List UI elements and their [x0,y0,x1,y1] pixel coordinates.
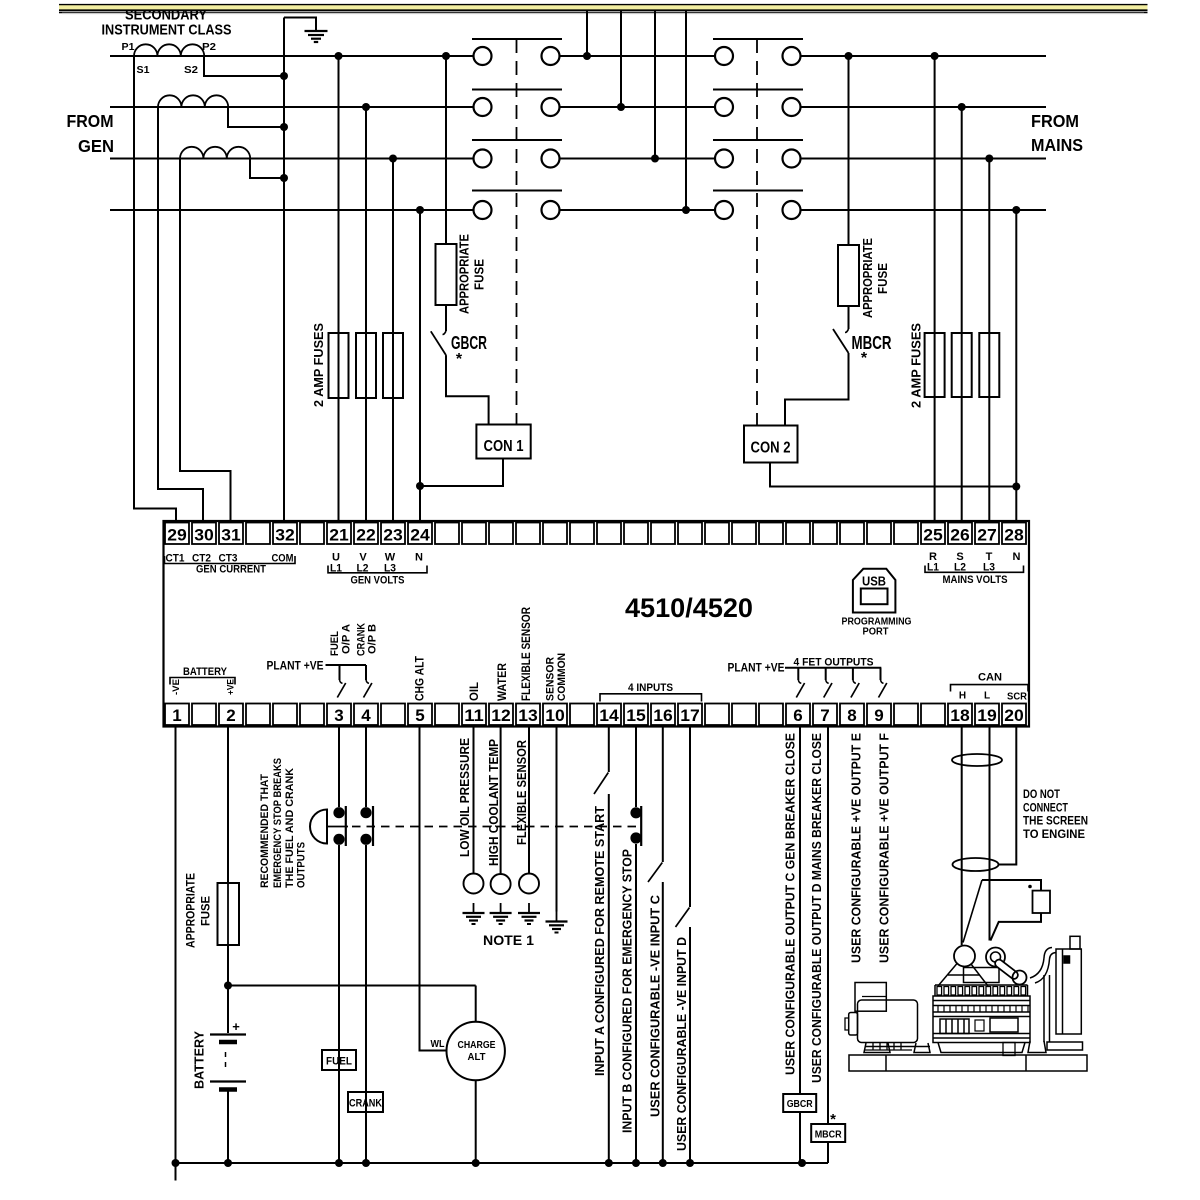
svg-text:13: 13 [518,706,538,725]
svg-text:H: H [959,691,966,702]
wire gen L1 sense to terminal 21 [338,56,340,521]
svg-text:APPROPRIATE: APPROPRIATE [184,873,198,948]
svg-text:PORT: PORT [863,626,890,638]
charge alternator [447,1022,505,1080]
svg-text:FLEXIBLE SENSOR: FLEXIBLE SENSOR [519,607,533,701]
wire terminal 15 input B [635,727,637,808]
wire load feed 1 [586,11,588,56]
wire charge alt excite from battery [475,986,477,1022]
engine generator set [845,936,1087,1071]
svg-text:4: 4 [361,706,371,725]
svg-text:+VE: +VE [225,679,236,695]
wire terminal 13 flexible sensor [528,727,530,874]
svg-text:11: 11 [464,706,484,725]
emergency stop contact fuel [333,807,344,818]
top border band [59,5,1148,10]
svg-text:*: * [830,1111,836,1128]
svg-text:USB: USB [862,574,886,589]
wire load feed 3 [654,11,656,159]
svg-text:CON 2: CON 2 [751,440,791,457]
svg-text:MAINS VOLTS: MAINS VOLTS [943,574,1008,586]
svg-text:25: 25 [923,526,943,545]
switch FUEL output A [339,665,341,680]
wire terminal 16 input C [662,727,664,863]
wire mains L1 sense to terminal 25 [934,56,936,521]
svg-text:CAN: CAN [978,672,1002,684]
svg-text:GEN CURRENT: GEN CURRENT [196,564,266,576]
svg-text:*: * [456,351,463,368]
svg-text:N: N [1013,551,1021,563]
svg-text:5: 5 [415,706,424,725]
terminal strip bottom row [165,704,189,726]
svg-text:USER CONFIGURABLE -VE INPUT D: USER CONFIGURABLE -VE INPUT D [675,937,689,1151]
svg-text:15: 15 [626,706,646,725]
dashed linkage CON2 [756,39,758,426]
ground symbol CT common earth [284,18,316,31]
svg-text:USER CONFIGURABLE +VE OUTPUT E: USER CONFIGURABLE +VE OUTPUT E [850,733,864,963]
wire mains neutral to terminal 28 [1015,210,1017,521]
svg-text:FUEL: FUEL [329,631,341,656]
twisted pair shield lower [953,858,999,871]
svg-text:1: 1 [172,706,181,725]
svg-text:HIGH COOLANT TEMP: HIGH COOLANT TEMP [487,739,501,866]
wire CT1 S2 lead to common [204,56,284,76]
svg-text:7: 7 [820,706,829,725]
wire load feed 4 [685,11,687,210]
svg-text:S2: S2 [184,65,198,76]
switch GBCR auxiliary contact [431,331,446,355]
svg-text:P2: P2 [202,42,216,53]
CAN termination resistor [982,880,1041,891]
svg-text:WATER: WATER [495,663,509,701]
wire terminal 11 oil sensor [473,727,475,874]
relay FUEL [322,1050,356,1070]
wire terminal 6 GBCR relay [799,727,801,1095]
svg-text:29: 29 [167,526,187,545]
wire CON2 coil return to mains neutral [770,463,1016,487]
svg-text:N: N [415,552,423,564]
svg-text:EMERGENCY STOP BREAKS: EMERGENCY STOP BREAKS [272,758,284,888]
svg-text:6: 6 [793,706,802,725]
wire terminal 19 CAN L [989,727,991,941]
svg-text:FLEXIBLE SENSOR: FLEXIBLE SENSOR [515,740,529,845]
wire terminal 14 input A [608,727,610,773]
switch MBCR auxiliary contact [833,329,849,353]
svg-text:FUSE: FUSE [473,259,487,290]
wire CT2 S1 lead to terminal 30 [158,107,203,521]
svg-text:RECOMMENDED THAT: RECOMMENDED THAT [259,774,271,888]
bracket GEN CURRENT [165,556,296,564]
junction CT commons [280,72,288,80]
fuse appropriate GBCR [436,244,457,305]
bracket MAINS VOLTS [925,566,1024,573]
wire terminal 1 to battery negative bus [175,727,177,1164]
svg-text:L: L [984,691,990,702]
svg-text:4 INPUTS: 4 INPUTS [628,682,673,694]
svg-text:ALT: ALT [468,1051,487,1063]
ground flexible sensor [528,903,530,913]
svg-text:21: 21 [329,526,349,545]
svg-text:MBCR: MBCR [852,333,892,353]
fuse 2A gen L2 [356,333,376,398]
wire charge alt to bus [475,1080,477,1163]
wire MBCR to bus end [827,1142,829,1163]
wire gen neutral to terminal 24 [419,210,421,521]
svg-text:27: 27 [977,526,997,545]
svg-text:OIL: OIL [467,682,481,701]
wire terminal 18 CAN H [961,727,963,946]
svg-text:GBCR: GBCR [787,1098,813,1110]
wire CT common to terminal 32 [283,18,285,522]
wire terminal 7 MBCR relay [827,727,829,1125]
wire gen bus L2 [110,106,474,108]
svg-text:TO ENGINE: TO ENGINE [1023,829,1085,841]
svg-text:CRANK: CRANK [349,1098,382,1110]
svg-text:BATTERY: BATTERY [193,1030,207,1089]
switch CRANK output B [365,665,367,680]
fuse 2A gen L3 [383,333,403,398]
svg-text:DO NOT: DO NOT [1023,789,1060,801]
svg-text:23: 23 [383,526,403,545]
wire gen bus L1 [110,55,474,57]
wire CT3 S2 lead to common [250,159,284,179]
wire load feed 2 [620,11,622,107]
switch FET output terminal 6 [797,668,799,680]
wire MBCR to CON2 coil [785,353,849,426]
wire neutral bus [110,209,474,211]
svg-text:FROM: FROM [67,111,114,131]
fuse 2A mains L2 [952,333,972,397]
svg-text:MBCR: MBCR [815,1129,842,1141]
emergency stop pushbutton [310,810,327,844]
oil pressure sender [464,874,484,894]
wire CT2 S2 lead to common [228,107,284,127]
svg-text:17: 17 [680,706,700,725]
circuit breaker CON1 poles [472,38,562,40]
svg-text:APPROPRIATE: APPROPRIATE [458,234,472,314]
svg-text:19: 19 [977,706,997,725]
svg-text:LOW OIL PRESSURE: LOW OIL PRESSURE [458,738,472,857]
svg-text:CON 1: CON 1 [484,438,524,455]
fuse appropriate battery [218,883,240,945]
svg-text:22: 22 [356,526,376,545]
contactor coil CON 1 [476,425,530,459]
svg-text:THE FUEL AND CRANK: THE FUEL AND CRANK [284,768,296,888]
svg-text:*: * [861,350,868,367]
svg-text:30: 30 [194,526,214,545]
svg-text:9: 9 [874,706,883,725]
svg-text:4 FET OUTPUTS: 4 FET OUTPUTS [794,656,874,668]
relay GBCR [783,1094,816,1112]
USB programming port connector [853,569,896,613]
svg-text:12: 12 [491,706,511,725]
svg-text:APPROPRIATE: APPROPRIATE [861,238,875,318]
svg-text:31: 31 [221,526,241,545]
dashed emergency stop linkage [352,826,641,828]
svg-text:USER CONFIGURABLE OUTPUT C GEN: USER CONFIGURABLE OUTPUT C GEN BREAKER C… [784,733,798,1075]
switch remote start input A [594,773,608,795]
ground sensor common [556,912,558,922]
svg-text:8: 8 [847,706,856,725]
svg-text:GBCR: GBCR [451,333,487,353]
svg-text:28: 28 [1004,526,1024,545]
wire terminal 3 fuel output [338,727,340,808]
svg-text:INPUT B CONFIGURED FOR EMERGEN: INPUT B CONFIGURED FOR EMERGENCY STOP [621,849,635,1133]
wire terminal 20 CAN SCR screen [999,727,1017,865]
svg-text:FROM: FROM [1031,111,1079,131]
relay CRANK [348,1092,383,1112]
bracket GEN VOLTS [328,566,427,573]
svg-text:-VE: -VE [171,679,182,695]
svg-text:CHARGE: CHARGE [458,1039,496,1051]
wire GBCR to CON1 coil [446,355,489,424]
svg-text:2: 2 [226,706,235,725]
svg-text:18: 18 [950,706,970,725]
svg-text:INSTRUMENT CLASS: INSTRUMENT CLASS [102,22,232,39]
wire gen L2 sense to terminal 22 [365,107,367,521]
fuse 2A mains L3 [979,333,999,397]
controller 4510/4520 module outline [164,521,1030,727]
svg-text:PLANT +VE: PLANT +VE [728,663,785,675]
flexible sender [519,874,539,894]
wire terminal 2 to battery fuse [227,727,229,884]
svg-text:O/P A: O/P A [341,624,353,654]
svg-text:16: 16 [653,706,673,725]
svg-text:FUSE: FUSE [876,263,890,294]
svg-text:10: 10 [545,706,565,725]
wire fuse to GBCR contact [445,305,447,331]
svg-text:CHG ALT: CHG ALT [413,655,427,701]
coolant temp sender [491,874,511,894]
fuse 2A mains L1 [925,333,945,397]
wire gen bus L3 [110,158,474,160]
wire terminal 1 stub below bus [175,1163,177,1181]
switch input D [676,908,690,928]
svg-text:SCR: SCR [1007,692,1028,703]
svg-text:32: 32 [275,526,295,545]
svg-text:GEN VOLTS: GEN VOLTS [351,575,405,587]
switch input C [648,863,662,883]
svg-text:2 AMP FUSES: 2 AMP FUSES [311,323,326,407]
svg-text:INPUT A CONFIGURED FOR REMOTE: INPUT A CONFIGURED FOR REMOTE START [593,806,607,1076]
svg-text:THE SCREEN: THE SCREEN [1023,816,1088,828]
svg-text:CONNECT: CONNECT [1023,803,1068,815]
emergency stop contact input B [630,807,641,818]
wire fuse to MBCR contact [848,306,850,329]
svg-text:USER CONFIGURABLE -VE INPUT C: USER CONFIGURABLE -VE INPUT C [649,895,663,1117]
svg-text:WL: WL [431,1038,445,1050]
svg-text:FUEL: FUEL [326,1056,352,1068]
svg-text:PLANT +VE: PLANT +VE [267,661,324,673]
svg-text:NOTE 1: NOTE 1 [483,933,535,948]
svg-text:24: 24 [410,526,430,545]
wire CON1 coil return to neutral [420,459,503,487]
svg-text:USER CONFIGURABLE +VE OUTPUT F: USER CONFIGURABLE +VE OUTPUT F [878,733,892,963]
svg-text:USER CONFIGURABLE OUTPUT D MAI: USER CONFIGURABLE OUTPUT D MAINS BREAKER… [810,733,824,1083]
wire terminal 12 water sensor [500,727,502,875]
ground oil sensor [473,903,475,913]
svg-text:MAINS: MAINS [1031,135,1083,155]
ground water sensor [500,903,502,913]
wire CT3 S1 lead to terminal 31 [180,159,231,522]
dashed linkage CON1 [516,39,518,425]
wire CT1 S1 lead to terminal 29 [134,56,176,521]
terminal strip top row [165,523,189,545]
svg-text:GEN: GEN [78,136,114,156]
circuit breaker CON2 poles [713,38,803,40]
wire gen L3 sense to terminal 23 [392,159,394,522]
svg-text:O/P B: O/P B [367,624,379,654]
CT3 current transformer [180,147,250,159]
battery negative bus wire [176,1162,829,1164]
svg-text:SENSOR: SENSOR [545,657,557,701]
svg-text:OUTPUTS: OUTPUTS [296,842,308,888]
contactor coil CON 2 [744,426,798,463]
svg-text:3: 3 [334,706,343,725]
CT1 current transformer [134,44,204,56]
wire GBCR feed from L1 [445,56,447,244]
wire terminal 5 to charge alt WL [420,727,447,1051]
junction battery plus to charge alt [224,982,232,990]
twisted pair shield upper [952,754,1002,766]
svg-text:P1: P1 [122,42,135,53]
wire mains L3 sense to terminal 27 [988,159,990,522]
wire mains L2 sense to terminal 26 [961,107,963,521]
svg-text:14: 14 [599,706,619,725]
relay MBCR [811,1124,845,1142]
wire terminal 17 input D [689,727,691,908]
fuse 2A gen L1 [329,333,349,398]
svg-text:4510/4520: 4510/4520 [625,593,753,623]
fuse appropriate MBCR [838,245,859,306]
wire fuse to battery plus [227,945,229,1033]
svg-text:S1: S1 [137,65,150,76]
svg-text:BATTERY: BATTERY [183,666,228,678]
wire MBCR feed from mains L1 [848,56,850,245]
wire battery minus to bus [227,1092,229,1164]
wire terminal 10 sensor common [556,727,558,912]
svg-text:2 AMP FUSES: 2 AMP FUSES [909,323,924,408]
svg-text:26: 26 [950,526,970,545]
CT2 current transformer [158,95,228,107]
wire terminal 4 crank output [365,727,367,808]
emergency stop contact crank [360,807,371,818]
svg-text:COMMON: COMMON [556,653,568,701]
svg-text:20: 20 [1004,706,1024,725]
svg-text:FUSE: FUSE [199,896,213,926]
svg-text:+: + [232,1019,240,1034]
